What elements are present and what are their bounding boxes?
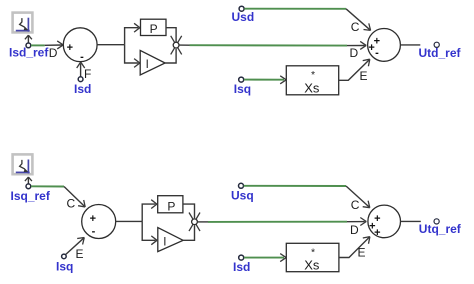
summer S3 (368, 29, 401, 62)
svg-text:Isq_ref: Isq_ref (11, 189, 51, 203)
wire dark stub after top junction (179, 44, 190, 46)
summer S2 (82, 205, 116, 239)
svg-text:Xs: Xs (304, 80, 320, 95)
svg-text:Utq_ref: Utq_ref (419, 222, 462, 236)
svg-text:Isq: Isq (234, 82, 251, 96)
wire I output to junction (bottom, up arrow) (183, 225, 194, 240)
svg-text:F: F (84, 67, 91, 81)
signal generator block (Isd_ref source) (13, 13, 33, 33)
wire summer S4 output (401, 220, 421, 222)
port Isq (bottom row) (62, 254, 67, 259)
wire diagonal Isq into summer S2 minus input (66, 238, 84, 254)
svg-text:Isd: Isd (233, 260, 250, 274)
svg-text:Isd_ref: Isd_ref (9, 46, 49, 60)
wire summer S2 output to branch point (116, 220, 143, 222)
wire branch down to I block (125, 45, 139, 63)
svg-text:E: E (360, 69, 368, 83)
svg-text:Isq: Isq (56, 260, 73, 274)
gain block P (bottom row) (158, 196, 183, 214)
svg-text:P: P (167, 200, 175, 214)
port Isd_ref (26, 43, 31, 48)
wire green Isq into Xs block (244, 79, 284, 81)
svg-text:-: - (92, 226, 96, 238)
svg-text:+: + (90, 213, 96, 225)
svg-text:I: I (146, 59, 149, 71)
wire P output to junction (down arrow) (166, 28, 176, 42)
wire green from Usq (244, 185, 346, 187)
wire into summer S4 middle input (347, 221, 365, 223)
wire I output to junction (up arrow) (165, 49, 176, 63)
port Utd_ref (434, 42, 439, 47)
gain block P (top row) (141, 19, 167, 36)
wire into summer S1 plus input (45, 44, 62, 46)
wire into summer S3 middle input (347, 45, 365, 47)
port Isd (bottom row) (239, 255, 244, 260)
junction node (top PI output) (171, 36, 182, 55)
svg-text:E: E (76, 247, 84, 261)
wire port to generator with up arrow (bottom) (27, 178, 29, 184)
svg-text:Usq: Usq (231, 189, 254, 203)
wire diagonal Usq into summer S4 (346, 186, 369, 207)
wire branch down to I block (bottom) (142, 221, 155, 240)
wire branch up to P block (bottom) (142, 204, 155, 221)
svg-text:Xs: Xs (304, 258, 320, 273)
wire green from port Isq_ref (31, 185, 64, 187)
svg-text:Usd: Usd (232, 10, 255, 24)
wire green PI output to right summer (190, 44, 348, 46)
port Isq (top row) (239, 77, 244, 82)
svg-text:Utd_ref: Utd_ref (419, 46, 462, 60)
svg-text:D: D (49, 46, 58, 60)
signal generator block (Isq_ref source) (13, 154, 33, 174)
multiplier block Xs (bottom row) (286, 243, 339, 272)
wire Isd into summer S1 minus input (80, 64, 82, 77)
wire summer S1 output to branch point (97, 44, 125, 46)
svg-text:+: + (368, 42, 374, 54)
svg-text:I: I (163, 236, 166, 248)
port Isq_ref (26, 184, 31, 189)
port Utq_ref (434, 219, 439, 224)
junction node (bottom PI output) (189, 213, 200, 232)
summer S1 (63, 28, 97, 63)
svg-text:-: - (375, 47, 379, 59)
wire green Isd into Xs block (bottom) (244, 257, 284, 259)
wire port to generator with up arrow (27, 36, 29, 43)
wire Xs output into summer S3 minus input (339, 60, 369, 80)
svg-text:D: D (350, 46, 359, 60)
wire diagonal into summer S2 plus input (64, 187, 84, 207)
port Usq (239, 183, 244, 188)
wire green from port Isd_ref (31, 44, 45, 46)
svg-text:C: C (67, 196, 76, 210)
svg-text:C: C (351, 20, 360, 34)
svg-text:+: + (374, 227, 380, 239)
port Usd (239, 6, 244, 11)
summer S4 (368, 205, 401, 239)
svg-text:-: - (80, 51, 84, 63)
svg-text:C: C (351, 198, 360, 212)
wire branch up to P block (125, 28, 139, 45)
wire green from Usd (244, 8, 346, 10)
wire diagonal Usd into summer S3 (346, 9, 370, 30)
wire green PI output to right summer (bottom) (208, 221, 347, 223)
wire summer S3 output (400, 44, 420, 46)
svg-text:+: + (67, 42, 73, 54)
multiplier block Xs (top row) (286, 66, 338, 96)
wire P output to junction (bottom, down arrow) (183, 204, 195, 218)
svg-text:*: * (311, 246, 315, 258)
svg-text:Isd: Isd (74, 82, 91, 96)
svg-text:E: E (358, 246, 366, 260)
integrator block I (bottom row) (158, 228, 183, 252)
port Isd (top row) (78, 77, 83, 82)
wire Xs output into summer S4 plus input (339, 238, 369, 258)
svg-text:D: D (350, 223, 359, 237)
wire dark stub after bottom junction (197, 221, 208, 223)
svg-text:*: * (311, 69, 315, 81)
integrator block I (top row) (140, 50, 165, 75)
svg-text:P: P (150, 22, 158, 36)
